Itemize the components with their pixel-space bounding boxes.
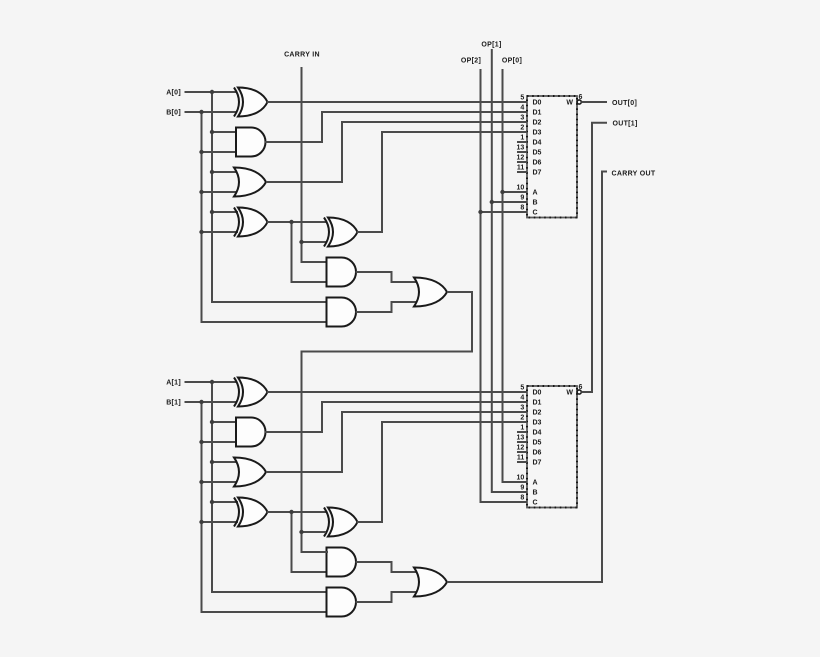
U2 pin 5 (D0) stub <box>517 391 527 393</box>
multiplexer U2 74151 box <box>527 386 577 508</box>
wire OP[1] select net <box>492 49 517 492</box>
svg-text:D7: D7 <box>533 460 542 467</box>
node B[0] junction at XOR input <box>199 110 203 114</box>
wire net halfsum bit1 branch to AND14 <box>292 512 329 572</box>
wire net carry1 (bit0 carry to bit1) <box>302 292 473 552</box>
wire net AND05 out to OR02 <box>356 302 417 312</box>
U2 pin 12 (D6) stub <box>517 451 527 453</box>
svg-text:1: 1 <box>520 425 524 432</box>
node A[1] rail junction bit1 <box>210 460 214 464</box>
svg-text:B[1]: B[1] <box>166 400 181 407</box>
wire B[1] input lead <box>185 401 237 403</box>
wire A[0] rail <box>212 92 328 302</box>
XOR gate X02 (A xor B for sum) bit0 <box>234 208 268 237</box>
wire A[0] input lead <box>185 91 237 93</box>
OR gate O11 (A or B) bit1 <box>234 458 266 487</box>
svg-text:3: 3 <box>520 115 524 122</box>
U1 pin 5 (D0) stub <box>517 101 527 103</box>
node carry1 junction bit1 <box>299 530 303 534</box>
U2 pin 8 (C) stub <box>517 501 527 503</box>
node B[1] rail junction bit1 <box>199 440 203 444</box>
svg-text:CARRY IN: CARRY IN <box>284 52 320 59</box>
U2 inverted output bubble (pin 6, W) <box>577 390 581 394</box>
wire OUT[0] output net <box>581 101 607 103</box>
AND gate A05 (carry generate) bit0 <box>327 298 357 327</box>
svg-text:5: 5 <box>520 385 524 392</box>
svg-text:11: 11 <box>517 165 525 172</box>
U2 pin 1 (D4) stub <box>517 431 527 433</box>
wire A[0] branch to gate row 4 bit0 <box>212 211 238 213</box>
wire net sum bit1 to mux D3 <box>357 422 517 522</box>
wire OP[1] branch to U1 pin B <box>492 201 517 203</box>
wire B[1] branch to gate row 4 bit1 <box>202 521 239 523</box>
svg-text:10: 10 <box>517 185 525 192</box>
svg-text:2: 2 <box>520 415 524 422</box>
wire net halfsum bit1 to sum XOR <box>267 511 326 513</box>
wire B[0] input lead <box>185 111 237 113</box>
XOR gate X03 (sum) bit0 <box>324 218 358 247</box>
svg-text:W: W <box>566 100 573 107</box>
AND gate A04 (carry propagate) bit0 <box>327 258 357 287</box>
node B[0] rail junction bit0 <box>199 150 203 154</box>
wire OP[2] branch to U1 pin C <box>481 211 518 213</box>
wire A[1] branch to gate row 3 bit1 <box>212 461 238 463</box>
U1 pin 11 (D7) stub <box>517 171 527 173</box>
node B[0] rail junction bit0 <box>199 190 203 194</box>
U1 pin 8 (C) stub <box>517 211 527 213</box>
U2 pin 11 (D7) stub <box>517 461 527 463</box>
node halfsum junction bit0 <box>289 220 293 224</box>
wire B[1] rail <box>202 402 329 612</box>
svg-text:A[0]: A[0] <box>166 90 181 97</box>
svg-text:A[1]: A[1] <box>166 380 181 387</box>
svg-text:W: W <box>566 390 573 397</box>
node A[0] junction at XOR input <box>210 90 214 94</box>
wire A[0] branch to gate row 2 bit0 <box>212 131 238 133</box>
AND gate A01 (A and B) bit0 <box>236 128 266 157</box>
wire A[1] branch to gate row 2 bit1 <box>212 421 238 423</box>
wire CARRY OUT output net <box>447 172 607 583</box>
wire A[1] rail <box>212 382 328 592</box>
OR gate O01 (A or B) bit0 <box>234 168 266 197</box>
svg-text:8: 8 <box>520 495 524 502</box>
OR gate O12 (carry out of bit1) <box>414 568 447 597</box>
U2 pin 4 (D1) stub <box>517 401 527 403</box>
U1 pin 4 (D1) stub <box>517 111 527 113</box>
svg-text:CARRY OUT: CARRY OUT <box>612 170 656 177</box>
node B[1] rail junction bit1 <box>199 480 203 484</box>
wire B[0] branch to gate row 3 bit0 <box>202 191 239 193</box>
wire net XOR01 out to mux D0 <box>267 101 517 103</box>
wire A[1] branch to gate row 4 bit1 <box>212 501 238 503</box>
U1 pin 3 (D2) stub <box>517 121 527 123</box>
svg-text:D4: D4 <box>533 140 542 147</box>
svg-text:13: 13 <box>517 145 525 152</box>
U2 pin 2 (D3) stub <box>517 421 527 423</box>
svg-text:4: 4 <box>520 105 524 112</box>
svg-text:OP[0]: OP[0] <box>502 58 522 65</box>
svg-text:D2: D2 <box>533 120 542 127</box>
svg-text:D2: D2 <box>533 410 542 417</box>
svg-text:D6: D6 <box>533 450 542 457</box>
svg-text:D6: D6 <box>533 160 542 167</box>
U2 pin 3 (D2) stub <box>517 411 527 413</box>
svg-text:B: B <box>533 200 538 207</box>
svg-text:D1: D1 <box>533 110 542 117</box>
node A[1] junction at XOR input <box>210 380 214 384</box>
U2 pin 9 (B) stub <box>517 491 527 493</box>
svg-text:11: 11 <box>517 455 525 462</box>
svg-text:10: 10 <box>517 475 525 482</box>
AND gate A15 (carry generate) bit1 <box>327 588 357 617</box>
wire net AND14 out to OR12 <box>356 562 417 572</box>
XOR gate X01 (A xor B) bit0 <box>234 88 268 117</box>
wire B[0] branch to gate row 4 bit0 <box>202 231 239 233</box>
U2 pin 13 (D5) stub <box>517 441 527 443</box>
wire OP[0] select net <box>503 69 518 482</box>
svg-text:1: 1 <box>520 135 524 142</box>
wire CARRY IN net vertical <box>302 67 329 262</box>
wire OUT[1] output net <box>581 123 607 392</box>
wire B[0] branch to gate row 2 bit0 <box>202 151 239 153</box>
node CARRY IN junction bit0 <box>299 240 303 244</box>
wire net OR01 out to mux D2 <box>266 122 517 182</box>
svg-text:5: 5 <box>520 95 524 102</box>
svg-text:OUT[1]: OUT[1] <box>613 121 638 128</box>
wire net AND15 out to OR12 <box>356 592 417 602</box>
node A[0] rail junction bit0 <box>210 170 214 174</box>
wire CARRY IN branch to sum XOR bit0 <box>302 241 327 243</box>
wire net carry1 branch to sum XOR bit1 <box>302 531 327 533</box>
wire net XOR11 out to mux D0 <box>267 391 517 393</box>
wire net halfsum bit0 to sum XOR <box>267 221 326 223</box>
wire net AND04 out to OR02 <box>356 272 417 282</box>
U1 pin 12 (D6) stub <box>517 161 527 163</box>
svg-text:12: 12 <box>517 155 525 162</box>
svg-text:12: 12 <box>517 445 525 452</box>
wire net AND11 out to mux D1 <box>265 402 517 432</box>
node B[1] junction at XOR input <box>199 400 203 404</box>
wire net halfsum bit0 branch to AND04 <box>292 222 329 282</box>
svg-text:A: A <box>533 480 538 487</box>
node A[1] rail junction bit1 <box>210 500 214 504</box>
svg-text:D0: D0 <box>533 390 542 397</box>
node A[0] rail junction bit0 <box>210 130 214 134</box>
wire A[1] input lead <box>185 381 237 383</box>
svg-text:D4: D4 <box>533 430 542 437</box>
svg-text:8: 8 <box>520 205 524 212</box>
U1 pin 2 (D3) stub <box>517 131 527 133</box>
node halfsum junction bit1 <box>289 510 293 514</box>
svg-text:A: A <box>533 190 538 197</box>
node OP[0] junction <box>500 190 504 194</box>
svg-text:D3: D3 <box>533 420 542 427</box>
XOR gate X12 (A xor B for sum) bit1 <box>234 498 268 527</box>
svg-text:D0: D0 <box>533 100 542 107</box>
AND gate A14 (carry propagate) bit1 <box>327 548 357 577</box>
wire net sum bit0 to mux D3 <box>357 132 517 232</box>
svg-text:D5: D5 <box>533 150 542 157</box>
wire net OR11 out to mux D2 <box>266 412 517 472</box>
U1 pin 9 (B) stub <box>517 201 527 203</box>
XOR gate X13 (sum) bit1 <box>324 508 358 537</box>
svg-text:D5: D5 <box>533 440 542 447</box>
svg-text:9: 9 <box>520 195 524 202</box>
AND gate A11 (A and B) bit1 <box>236 418 266 447</box>
node B[1] rail junction bit1 <box>199 520 203 524</box>
svg-text:3: 3 <box>520 405 524 412</box>
wire B[1] branch to gate row 2 bit1 <box>202 441 239 443</box>
OR gate O02 (carry out of bit0) <box>414 278 447 307</box>
node A[0] rail junction bit0 <box>210 210 214 214</box>
svg-text:C: C <box>533 500 538 507</box>
svg-text:4: 4 <box>520 395 524 402</box>
U1 pin 13 (D5) stub <box>517 151 527 153</box>
U1 pin 1 (D4) stub <box>517 141 527 143</box>
svg-text:OP[1]: OP[1] <box>481 42 501 49</box>
node B[0] rail junction bit0 <box>199 230 203 234</box>
svg-text:2: 2 <box>520 125 524 132</box>
svg-text:D1: D1 <box>533 400 542 407</box>
svg-text:D7: D7 <box>533 170 542 177</box>
svg-text:9: 9 <box>520 485 524 492</box>
svg-text:OP[2]: OP[2] <box>461 58 481 65</box>
U2 pin 10 (A) stub <box>517 481 527 483</box>
svg-text:13: 13 <box>517 435 525 442</box>
svg-text:D3: D3 <box>533 130 542 137</box>
multiplexer U1 74151 box <box>527 96 577 218</box>
wire A[0] branch to gate row 3 bit0 <box>212 171 238 173</box>
svg-text:B[0]: B[0] <box>166 110 181 117</box>
wire B[0] rail <box>202 112 329 322</box>
node OP[2] junction <box>478 210 482 214</box>
node OP[1] junction <box>490 200 494 204</box>
wire OP[0] branch to U1 pin A <box>503 191 518 193</box>
node A[1] rail junction bit1 <box>210 420 214 424</box>
wire B[1] branch to gate row 3 bit1 <box>202 481 239 483</box>
svg-text:C: C <box>533 210 538 217</box>
wire OP[2] select net <box>481 69 518 502</box>
U1 inverted output bubble (pin 6, W) <box>577 100 581 104</box>
svg-text:OUT[0]: OUT[0] <box>612 100 637 107</box>
U1 pin 10 (A) stub <box>517 191 527 193</box>
svg-text:B: B <box>533 490 538 497</box>
wire net AND01 out to mux D1 <box>265 112 517 142</box>
XOR gate X11 (A xor B) bit1 <box>234 378 268 407</box>
